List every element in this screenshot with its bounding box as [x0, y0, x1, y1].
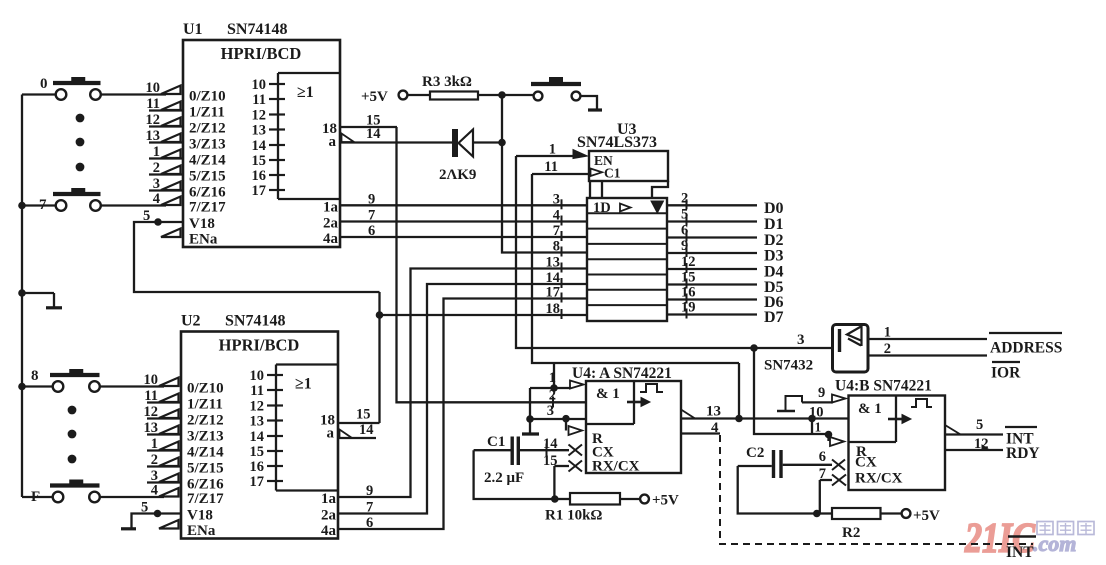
svg-text:1: 1 — [153, 144, 160, 160]
or-gate SN7432 body — [833, 325, 869, 373]
encoder U2 input 2/Z12 pin 12 — [144, 404, 224, 429]
svg-text:12: 12 — [144, 404, 159, 420]
svg-text:4: 4 — [711, 420, 719, 436]
svg-text:11: 11 — [250, 383, 264, 399]
encoder U1 input 6/Z16 pin 3 — [149, 176, 226, 201]
monostable U4:B output pin5 INT — [945, 417, 1003, 435]
svg-text:SN74LS373: SN74LS373 — [577, 134, 657, 151]
wire node to R2 — [817, 512, 832, 514]
wire bus to switch 0 — [22, 93, 56, 95]
encoder U1 input 1/Z11 pin 11 — [146, 96, 225, 121]
svg-text:U1: U1 — [183, 21, 203, 38]
wire U1 V18 pin5 cascade — [134, 222, 380, 292]
svg-text:3/Z13: 3/Z13 — [189, 137, 226, 153]
svg-text:2: 2 — [153, 160, 160, 176]
wire latch output D1 pin 5 — [667, 207, 784, 234]
U4:A pin15 X mark — [569, 459, 640, 475]
latch U3 pin1 OE line — [516, 142, 573, 158]
svg-text:IOR: IOR — [991, 365, 1021, 382]
encoder U1 body box — [183, 40, 340, 247]
pushbutton switch key 8 — [31, 368, 100, 392]
wire LE branch down to U4B — [738, 363, 740, 419]
encoder U2 output 2a pin 7 label — [321, 500, 373, 524]
wire strobe button to ground stub — [581, 96, 598, 109]
wire latch output D7 pin 19 — [667, 300, 784, 327]
svg-text:HPRI/BCD: HPRI/BCD — [219, 336, 300, 355]
svg-text:8: 8 — [553, 239, 560, 255]
latch U3 output inverter triangle — [651, 201, 664, 213]
wire U1 pin14 to diode — [340, 141, 452, 143]
svg-text:7: 7 — [553, 223, 560, 239]
svg-text:U4: A SN74221: U4: A SN74221 — [572, 365, 672, 382]
wire latch LE pin11 to U4 trigger — [532, 174, 739, 363]
encoder U2 output 18/a labels — [320, 413, 335, 442]
svg-text:10: 10 — [144, 372, 159, 388]
encoder U1 input 4/Z14 pin 1 — [149, 144, 226, 169]
svg-text:D4: D4 — [764, 264, 784, 281]
ground stub strobe — [588, 108, 602, 111]
svg-text:13: 13 — [250, 414, 265, 430]
wire U4:B pin7 to R2 node — [819, 480, 821, 514]
wire +5V to R3 — [408, 94, 431, 96]
svg-text:+5V: +5V — [913, 508, 940, 524]
wire pin10 to pin11 — [812, 419, 822, 435]
latch U3 C1 dynamic input — [591, 166, 621, 181]
wire R1 to +5V — [620, 493, 679, 509]
svg-text:3/Z13: 3/Z13 — [187, 429, 224, 445]
encoder U2 input 4/Z14 pin 1 — [147, 436, 224, 461]
svg-text:RX/CX: RX/CX — [592, 459, 640, 475]
label INT with overbar — [1005, 427, 1037, 448]
wire U4:A pin1 to pin3 — [529, 388, 531, 419]
encoder U1 output a/pin14 wedge — [342, 134, 355, 143]
svg-text:1a: 1a — [323, 199, 339, 215]
encoder U1 OR symbol — [297, 84, 314, 101]
node U1 V18 junction — [154, 218, 162, 226]
label RDY — [1006, 445, 1040, 462]
capacitor C2 — [746, 445, 783, 478]
pushbutton strobe switch — [531, 77, 581, 100]
svg-text:14: 14 — [252, 138, 267, 154]
node pin10 junction — [808, 415, 816, 423]
encoder U1 input 5/Z15 pin 2 — [149, 160, 226, 185]
encoder U1 input 0/Z10 pin 10 — [146, 80, 226, 105]
svg-text:13: 13 — [146, 128, 161, 144]
monostable U4:A label — [572, 365, 672, 382]
monostable U4:B trigger arrow — [888, 415, 911, 424]
or-gate SN7432 rotated >=1 symbol — [840, 326, 862, 353]
U4:B pin7 X mark — [832, 471, 903, 487]
encoder U2 output a/pin14 wedge — [340, 430, 353, 439]
svg-text:16: 16 — [681, 285, 696, 301]
+5V supply terminal top — [361, 89, 407, 105]
svg-text:2ΛK9: 2ΛK9 — [439, 167, 476, 183]
svg-text:0: 0 — [40, 76, 48, 92]
ground symbol U2 V18 — [121, 527, 136, 530]
svg-text:ENa: ENa — [189, 232, 218, 248]
latch U3 1D label — [593, 200, 631, 216]
svg-text:14: 14 — [366, 126, 381, 142]
svg-text:2: 2 — [151, 452, 158, 468]
svg-text:11: 11 — [544, 159, 558, 175]
monostable U4:B AND label — [858, 401, 882, 417]
svg-text:1D: 1D — [593, 200, 611, 216]
encoder U2 HPRI/BCD header — [219, 336, 300, 355]
node U2 V18 junction — [154, 510, 162, 518]
svg-text:2: 2 — [884, 341, 891, 357]
monostable U4:B pin6 CX line — [783, 449, 832, 465]
encoder U1 ENa row — [161, 229, 218, 248]
encoder U1 input 3/Z13 pin 13 — [146, 128, 226, 153]
wire node to R1 — [555, 498, 570, 500]
svg-text:ENa: ENa — [187, 523, 216, 539]
svg-text:SN7432: SN7432 — [764, 358, 813, 374]
svg-text:ADDRESS: ADDRESS — [990, 340, 1062, 357]
monostable U4:A pin14 CX line — [520, 436, 569, 456]
svg-text:6: 6 — [819, 449, 826, 465]
svg-text:& 1: & 1 — [858, 401, 882, 417]
resistor R3 — [422, 74, 478, 100]
svg-text:16: 16 — [252, 168, 267, 184]
encoder U2 input 0/Z10 pin 10 — [144, 372, 224, 397]
svg-text:D1: D1 — [764, 216, 784, 233]
encoder U1 output 1a pin 9 label — [323, 191, 375, 215]
svg-text:2a: 2a — [321, 508, 337, 524]
encoder U1 output pin14 label — [366, 126, 381, 142]
watermark 21IC — [964, 516, 1036, 562]
encoder U2 input 3/Z13 pin 13 — [144, 420, 224, 445]
node U4:A pin3 junction — [526, 415, 534, 423]
wire U2 4a to latch pin17 — [338, 299, 587, 530]
monostable U4:B inner divider — [849, 396, 897, 443]
encoder U2 OR symbol — [295, 376, 312, 393]
node cascade/latch18 junction — [376, 311, 384, 319]
svg-text:V18: V18 — [187, 508, 213, 524]
svg-text:17: 17 — [546, 285, 561, 301]
monostable U4:B label — [835, 378, 932, 395]
svg-text:& 1: & 1 — [596, 386, 620, 402]
ground symbol U4:A pin3 — [522, 419, 539, 434]
watermark dianziwang — [1037, 522, 1094, 535]
svg-text:1/Z11: 1/Z11 — [189, 105, 225, 121]
wire latch output D3 pin 9 — [667, 238, 784, 265]
monostable U4:A trigger arrow — [627, 398, 650, 407]
svg-text:4: 4 — [153, 191, 160, 207]
svg-text:R2: R2 — [842, 525, 860, 541]
svg-text:11: 11 — [252, 92, 266, 108]
encoder U2 input 7/Z17 pin 4 — [151, 483, 224, 508]
svg-text:16: 16 — [250, 459, 265, 475]
dots between keys 0 and 7 — [76, 114, 85, 172]
svg-text:a: a — [327, 426, 335, 442]
encoder U1 inner priority box — [278, 73, 340, 199]
svg-text:2/Z12: 2/Z12 — [189, 121, 226, 137]
svg-text:V18: V18 — [189, 216, 215, 232]
svg-text:1a: 1a — [321, 491, 337, 507]
monostable U4:B pin10 label — [809, 405, 824, 421]
monostable U4:B R input — [829, 435, 868, 461]
wire U1 pin15 down to U4A pin2 — [397, 127, 587, 402]
wire cascade to latch pin18 — [380, 292, 588, 423]
node U4A pin1 junction — [550, 384, 558, 392]
latch U3 left pin number labels — [546, 191, 562, 319]
latch U3 data box — [587, 198, 667, 321]
wire latch output D5 pin 15 — [667, 270, 784, 297]
svg-text:18: 18 — [546, 301, 561, 317]
svg-text:a: a — [329, 134, 337, 150]
svg-text:15: 15 — [356, 407, 371, 423]
encoder U2 label — [181, 313, 285, 330]
node junction bus/switch7 — [18, 202, 26, 210]
monostable U4:A body box — [586, 381, 681, 473]
svg-text:0/Z10: 0/Z10 — [187, 381, 224, 397]
encoder U1 output 18/a labels — [322, 121, 337, 150]
latch U3 pin11 LE line — [532, 159, 589, 175]
wire latch output D2 pin 6 — [667, 223, 784, 250]
monostable U4:A pin15 line — [543, 453, 569, 469]
wire gate input pin3 — [764, 332, 813, 374]
monostable U4:B pin7 line — [819, 466, 832, 482]
pulse waveform symbol pin9 — [777, 396, 802, 411]
wire U1 4a to latch pin7 — [340, 236, 587, 238]
encoder U2 input 6/Z16 pin 3 — [147, 468, 224, 493]
svg-text:9: 9 — [818, 385, 825, 401]
encoder U1 input 2/Z12 pin 12 — [146, 112, 226, 137]
pushbutton switch key 7 — [39, 188, 101, 213]
label bottom INT with overbar — [1006, 537, 1036, 562]
encoder U1 label — [183, 21, 287, 38]
svg-text:4: 4 — [553, 208, 560, 224]
svg-text:8: 8 — [31, 368, 39, 384]
monostable U4:B output pin12 RDY — [945, 436, 1003, 452]
monostable U4:A AND label — [596, 386, 620, 402]
monostable U4:A output pin4 — [681, 420, 720, 436]
svg-text:3: 3 — [153, 176, 160, 192]
svg-text:R1 10kΩ: R1 10kΩ — [545, 508, 602, 524]
watermark .com — [1033, 531, 1076, 556]
wire bus to switch 7 — [22, 204, 56, 206]
node SN7432 output junction — [750, 344, 758, 352]
wire U2 V18 to ground — [132, 514, 182, 529]
svg-text:1: 1 — [549, 370, 556, 386]
U4:A pin14 X mark — [569, 445, 614, 461]
capacitor C1 — [484, 434, 524, 486]
svg-text:2.2 μF: 2.2 μF — [484, 470, 524, 486]
svg-text:SN74148: SN74148 — [225, 313, 285, 330]
svg-text:≥1: ≥1 — [295, 376, 312, 393]
svg-text:HPRI/BCD: HPRI/BCD — [221, 44, 302, 63]
node R2/C2 junction — [813, 510, 821, 518]
wire C2 left lead and loop — [738, 466, 817, 514]
pushbutton switch key F — [31, 480, 100, 506]
encoder U2 body box — [181, 332, 338, 539]
U4:B pin6 X mark — [832, 455, 877, 471]
wire switch 8 to U2 input 0/Z10 — [100, 385, 164, 387]
wire bus to switch F — [22, 496, 53, 498]
monostable U4:B pulse symbol — [911, 399, 932, 407]
wire diode junction down to latch pin8 — [502, 95, 587, 253]
svg-text:12: 12 — [252, 108, 267, 124]
encoder U1 V18 row — [143, 208, 215, 232]
wire U1 2a to latch pin4 — [340, 220, 587, 222]
svg-text:1: 1 — [549, 142, 556, 158]
monostable U4:A pulse symbol — [640, 384, 663, 392]
svg-text:U4:B SN74221: U4:B SN74221 — [835, 378, 932, 395]
wire left key bus vertical — [21, 95, 23, 498]
svg-text:D2: D2 — [764, 232, 784, 249]
wire R2 to +5V — [881, 508, 941, 524]
encoder U2 output 4a pin 6 label — [321, 515, 373, 539]
wire latch output D6 pin 16 — [667, 285, 784, 312]
node R1/C1 junction — [551, 495, 559, 503]
svg-text:12: 12 — [250, 399, 265, 415]
pushbutton switch key 0 — [40, 76, 101, 100]
encoder U2 output pin14 stub — [338, 422, 376, 438]
encoder U1 output 2a pin 7 label — [323, 208, 375, 232]
svg-text:14: 14 — [359, 422, 374, 438]
node diode/vertical junction — [498, 139, 506, 147]
svg-text:4/Z14: 4/Z14 — [189, 153, 226, 169]
svg-text:1: 1 — [815, 420, 822, 435]
resistor R2 — [832, 508, 881, 541]
svg-text:+5V: +5V — [652, 493, 679, 509]
svg-text:3: 3 — [797, 332, 805, 348]
wire bus to switch 8 — [22, 385, 53, 387]
svg-text:U2: U2 — [181, 313, 201, 330]
svg-text:2a: 2a — [323, 216, 339, 232]
encoder U1 output pin15 line — [340, 113, 397, 129]
latch U3 control-to-cell connectors — [590, 181, 668, 198]
wire R3 to strobe button — [478, 94, 534, 96]
dots between keys 8 and F — [68, 406, 77, 464]
svg-text:INT: INT — [1006, 544, 1034, 561]
latch U3 label — [577, 121, 657, 151]
resistor R1 — [545, 493, 620, 524]
latch U3 cell dividers — [587, 213, 667, 305]
svg-text:11: 11 — [146, 96, 160, 112]
monostable U4:A R input — [566, 419, 603, 447]
svg-text:R3 3kΩ: R3 3kΩ — [422, 74, 472, 90]
svg-text:12: 12 — [681, 254, 696, 270]
svg-text:4a: 4a — [323, 231, 339, 247]
svg-text:D0: D0 — [764, 200, 784, 217]
label IOR with overbar — [991, 362, 1021, 382]
diode 2AK9 — [439, 129, 476, 183]
wire gate pin2 to IOR — [868, 341, 987, 357]
svg-text:13: 13 — [144, 420, 159, 436]
svg-text:C1: C1 — [487, 434, 505, 450]
monostable U4:A pin3 line — [530, 388, 586, 420]
wire C1 left lead and loop — [474, 450, 555, 499]
node junction bus/switch8 — [18, 383, 26, 391]
encoder U2 V18 row — [141, 500, 213, 524]
svg-text:19: 19 — [681, 300, 696, 316]
svg-text:4/Z14: 4/Z14 — [187, 445, 224, 461]
svg-text:10: 10 — [252, 77, 267, 93]
svg-text:13: 13 — [252, 123, 267, 139]
svg-text:2: 2 — [549, 388, 556, 404]
wire latch output D0 pin 2 — [667, 190, 784, 217]
svg-text:7/Z17: 7/Z17 — [187, 491, 224, 507]
svg-text:14: 14 — [250, 429, 265, 445]
wire switch 7 to U1 input 7/Z17 — [101, 204, 166, 206]
monostable U4:B pin9 line — [802, 385, 846, 403]
encoder U2 inner priority box — [276, 365, 338, 491]
monostable U4:B body box — [849, 396, 946, 491]
svg-text:+5V: +5V — [361, 89, 388, 105]
encoder U2 ENa row — [159, 520, 216, 539]
encoder U2 weight ticks 10-17 — [250, 368, 284, 490]
svg-text:15: 15 — [250, 444, 265, 460]
svg-text:1: 1 — [151, 436, 158, 452]
ground symbol upper — [22, 293, 62, 308]
wire switch F to U2 input 7/Z17 — [100, 496, 164, 498]
svg-text:5: 5 — [976, 417, 983, 433]
svg-text:5/Z15: 5/Z15 — [189, 169, 226, 185]
monostable U4:A inner divider — [586, 381, 634, 424]
wire latch output D4 pin 12 — [667, 254, 784, 281]
svg-text:4a: 4a — [321, 523, 337, 539]
svg-text:6/Z16: 6/Z16 — [189, 185, 226, 201]
svg-text:SN74148: SN74148 — [227, 21, 287, 38]
svg-text:RX/CX: RX/CX — [855, 471, 903, 487]
svg-text:.com: .com — [1033, 531, 1076, 556]
wire diode to vertical — [473, 141, 502, 143]
wire SN7432 output down to U4:B reset — [754, 348, 829, 434]
svg-text:CX: CX — [855, 455, 877, 471]
svg-text:5/Z15: 5/Z15 — [187, 461, 224, 477]
monostable U4:A pin1 line — [530, 370, 571, 388]
svg-text:3: 3 — [553, 191, 560, 207]
label ADDRESS with overbar — [989, 333, 1062, 357]
latch U3 EN control box — [589, 151, 668, 181]
svg-text:4: 4 — [151, 483, 158, 499]
monostable U4:A pin1 entry triangle — [570, 381, 584, 389]
svg-text:C1: C1 — [604, 166, 621, 181]
svg-text:D3: D3 — [764, 248, 784, 265]
svg-text:17: 17 — [252, 183, 267, 199]
svg-text:11: 11 — [144, 388, 158, 404]
encoder U1 HPRI/BCD header — [221, 44, 302, 63]
svg-text:D7: D7 — [764, 309, 784, 326]
wire gate pin1 to ADDRESS — [868, 325, 987, 341]
wire U1 1a to latch pin3 — [340, 204, 587, 206]
wire switch 0 to U1 input 0/Z10 — [101, 93, 166, 95]
wire LE branch to U4A pin1 — [553, 363, 555, 388]
wire U2 2a to latch pin14 — [338, 284, 587, 514]
svg-text:15: 15 — [681, 270, 696, 286]
svg-text:10: 10 — [250, 368, 265, 384]
svg-text:C2: C2 — [746, 445, 764, 461]
svg-text:≥1: ≥1 — [297, 84, 314, 101]
svg-text:1: 1 — [884, 325, 891, 341]
svg-text:7/Z17: 7/Z17 — [189, 200, 226, 216]
encoder U2 input 5/Z15 pin 2 — [147, 452, 224, 477]
svg-text:17: 17 — [250, 474, 265, 490]
svg-text:1/Z11: 1/Z11 — [187, 397, 223, 413]
encoder U2 output 1a pin 9 label — [321, 483, 373, 507]
node R3/diode junction — [498, 91, 506, 99]
encoder U2 output pin15 line — [338, 407, 380, 424]
svg-text:14: 14 — [543, 436, 558, 452]
svg-text:0/Z10: 0/Z10 — [189, 89, 226, 105]
svg-text:2/Z12: 2/Z12 — [187, 413, 224, 429]
svg-text:15: 15 — [252, 153, 267, 169]
node U4:A R junction — [562, 415, 570, 423]
encoder U1 output 4a pin 6 label — [323, 223, 375, 247]
wire U4:A pin15 to R1 node — [553, 466, 555, 499]
latch U3 EN text — [594, 153, 613, 168]
